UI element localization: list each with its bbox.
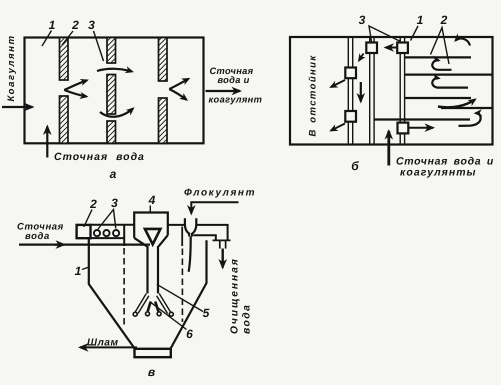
svg-text:1: 1 — [75, 264, 82, 278]
outlet stub right — [225, 240, 227, 248]
svg-text:в: в — [148, 365, 155, 379]
perforated pipe P1 — [347, 37, 349, 145]
dash-dot line right solid top — [181, 227, 183, 247]
trough bottom line — [91, 237, 125, 239]
outlet pipe tick — [213, 239, 231, 241]
dash-dot line left — [123, 248, 125, 328]
nozzle circle 1 — [133, 312, 137, 316]
nozzle box on P3 bottom — [398, 123, 409, 134]
baffle B2 bottom segment — [107, 121, 116, 143]
small arrow below P2 top box — [359, 54, 364, 61]
perforated pipe P2 — [369, 37, 371, 145]
flow fork at baffle B3 gap — [169, 79, 188, 89]
distributor left flare outer — [135, 294, 146, 313]
sludge outlet box — [135, 349, 171, 357]
trough hole 3 — [113, 230, 119, 236]
svg-text:вода: вода — [242, 304, 253, 334]
svg-text:3: 3 — [88, 18, 95, 32]
label 4 leader — [149, 206, 151, 213]
label 2 leader (fig v) — [84, 210, 92, 228]
tank left wall — [89, 238, 135, 349]
dash-dot line right — [181, 249, 183, 323]
svg-text:3: 3 — [359, 13, 366, 27]
sludge arrow — [80, 346, 137, 348]
flocculant funnel — [185, 218, 189, 236]
S-hook arrow E — [459, 113, 481, 126]
coagulant inlet arrow — [2, 106, 33, 108]
label 3 leaders (fig v) — [98, 210, 116, 230]
outlet pipe lower run — [194, 235, 216, 240]
distributor right flare inner — [157, 296, 168, 314]
flow arc under baffle B2 bottom gap — [100, 109, 133, 117]
nozzle circle 3 — [157, 312, 161, 316]
svg-text:Очищенная: Очищенная — [230, 257, 241, 334]
svg-text:коагулянты: коагулянты — [400, 166, 477, 178]
distributor mid-left branch — [148, 302, 151, 312]
nozzle circle 4 — [169, 312, 173, 316]
baffle line y108 — [441, 107, 493, 109]
baffle line y74.6 — [405, 73, 493, 75]
baffle line y98 — [405, 97, 471, 99]
central downcomer pipe left wall — [146, 246, 148, 293]
funnel feed pipe into tank — [189, 236, 191, 271]
svg-text:4: 4 — [148, 193, 156, 207]
inlet arrow line (fig v) — [19, 243, 150, 245]
svg-text:2: 2 — [89, 197, 97, 211]
nozzle box on P3 top — [397, 43, 408, 54]
hook arrow B — [432, 60, 451, 70]
svg-text:Флокулянт: Флокулянт — [184, 188, 256, 199]
label 2 leaders (fig b) — [431, 28, 450, 65]
chamber b outline — [290, 37, 493, 145]
svg-text:6: 6 — [186, 327, 193, 341]
box4 left funnel slant — [134, 238, 147, 246]
label 3 leaders (fig b) — [369, 26, 401, 42]
down arrow in channel — [360, 82, 362, 102]
tank right wall — [170, 240, 206, 349]
svg-text:вода: вода — [25, 231, 50, 242]
svg-text:коагулянт: коагулянт — [209, 95, 263, 105]
baffle B1 bottom segment — [60, 96, 69, 143]
svg-text:2: 2 — [71, 18, 79, 32]
nozzle box on P2 top — [366, 43, 377, 54]
trough right end wall — [123, 225, 125, 246]
arrow from P1 lower box — [331, 124, 345, 131]
perforated pipe P3 — [399, 37, 401, 145]
outlet pipe upper run — [196, 225, 228, 240]
bold inlet arrow from below — [387, 131, 390, 166]
svg-text:5: 5 — [203, 306, 210, 320]
baffle B1 top segment — [60, 38, 69, 81]
channel bottom line — [374, 118, 470, 120]
inlet trough stub — [77, 225, 91, 238]
svg-text:В отстойник: В отстойник — [308, 54, 319, 136]
waste water inlet arrow (bottom) — [46, 127, 48, 158]
link line box4 to funnel — [168, 224, 185, 226]
central downcomer pipe right wall — [157, 246, 159, 293]
svg-text:1: 1 — [417, 13, 424, 27]
svg-text:а: а — [110, 167, 117, 181]
outlet arrow right — [206, 90, 241, 92]
trough hole 1 — [94, 230, 100, 236]
flow fork at baffle B1 gap — [64, 80, 87, 90]
baffle B3 top segment — [159, 38, 168, 82]
purified water down arrow — [221, 249, 223, 268]
label 5 leader — [157, 284, 203, 311]
label 6 leader — [150, 302, 187, 330]
svg-text:Сточная вода: Сточная вода — [54, 151, 145, 163]
hook arrow C — [432, 78, 468, 87]
cone (triangle) inside box 4 — [145, 229, 161, 244]
hook arrow A (top right) — [456, 38, 471, 45]
mixer box 4 — [134, 213, 168, 238]
distributor left flare inner — [138, 296, 149, 314]
svg-text:1: 1 — [49, 18, 56, 32]
svg-text:3: 3 — [111, 196, 118, 210]
label 2 leader — [62, 31, 73, 45]
arrow from P3 bottom box (points right) — [409, 127, 434, 129]
flow arc over baffle B2 top gap — [97, 69, 132, 72]
svg-text:Шлам: Шлам — [87, 338, 119, 349]
arrow from P1 upper box — [331, 80, 345, 87]
svg-text:Коагулянт: Коагулянт — [6, 34, 17, 101]
distributor mid-right branch — [155, 302, 158, 312]
svg-text:2: 2 — [440, 13, 448, 27]
label 1 leader (fig v) — [82, 267, 89, 270]
svg-text:вода и: вода и — [218, 75, 250, 85]
long swoosh arrow D — [438, 100, 475, 108]
label 1 leader (fig b) — [411, 26, 419, 41]
trough top line — [90, 224, 134, 226]
svg-text:б: б — [351, 159, 359, 173]
box4 right funnel slant — [159, 235, 168, 246]
baffle B2 top segment — [107, 38, 116, 64]
outlet stub left — [219, 240, 221, 248]
baffle B2 middle segment — [107, 75, 116, 115]
baffle B3 bottom segment — [159, 98, 168, 143]
flocculant feed line with down arrow — [191, 202, 238, 213]
trough hole 2 — [103, 230, 109, 236]
distributor right flare outer — [159, 294, 170, 313]
nozzle circle 2 — [146, 312, 150, 316]
chamber a outline — [25, 38, 204, 144]
label 1 leader — [42, 31, 52, 47]
nozzle box on P1 lower — [345, 111, 356, 122]
arrow between top boxes (points left) — [386, 47, 397, 49]
label 3 leader — [94, 31, 104, 61]
baffle line y57 — [405, 56, 471, 58]
nozzle box on P1 upper — [345, 68, 356, 79]
